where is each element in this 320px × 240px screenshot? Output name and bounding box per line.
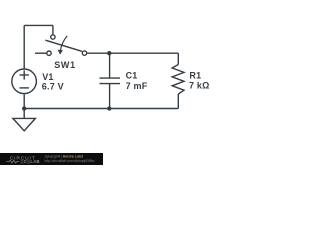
- switch pole terminal circle: [51, 35, 55, 39]
- svg-text:http://circuitlab.com/c5cbqnj8: http://circuitlab.com/c5cbqnj83l5kz: [45, 159, 96, 163]
- svg-text:7 kΩ: 7 kΩ: [189, 80, 210, 90]
- wire resistor bottom lead: [177, 94, 179, 109]
- junction dot at capacitor top: [107, 51, 111, 55]
- switch right throw circle: [82, 51, 86, 55]
- ground: [13, 118, 36, 130]
- resistor zigzag: [172, 65, 184, 95]
- switch left throw circle: [47, 51, 51, 55]
- svg-text:R1: R1: [189, 71, 201, 81]
- svg-text:V1: V1: [42, 72, 53, 82]
- watermark logo zigzag: [7, 160, 20, 163]
- voltage source V1: [12, 69, 37, 94]
- svg-text:C1: C1: [126, 71, 138, 81]
- wire battery top vertical: [23, 25, 25, 68]
- wire capacitor top lead: [109, 53, 111, 77]
- switch actuation arrow: [60, 36, 67, 51]
- watermark bar: [0, 153, 103, 165]
- wire resistor top lead: [177, 53, 179, 64]
- svg-text:ziyuangmli | Aurora_Lab3: ziyuangmli | Aurora_Lab3: [45, 154, 84, 158]
- wire top rail (switch to resistor): [87, 52, 178, 54]
- junction dot at battery bottom: [22, 106, 26, 110]
- svg-text:6.7 V: 6.7 V: [42, 82, 64, 92]
- switch SW1: [35, 35, 87, 56]
- wire capacitor bottom lead: [109, 84, 111, 109]
- switch left throw stub: [35, 52, 46, 54]
- wire switch pole drop: [52, 25, 54, 34]
- svg-text:SW1: SW1: [54, 60, 76, 70]
- switch lever: [45, 40, 82, 51]
- capacitor top plate: [100, 77, 121, 79]
- svg-text:▒C▒LAB: ▒C▒LAB: [21, 159, 40, 164]
- wire ground lead: [23, 109, 25, 119]
- wire battery bottom vertical: [23, 94, 25, 108]
- capacitor C1: [100, 78, 121, 84]
- wire bottom rail: [24, 108, 178, 110]
- svg-text:7 mF: 7 mF: [126, 81, 148, 91]
- switch arrow head: [58, 50, 63, 55]
- junction dot at capacitor bottom: [107, 106, 111, 110]
- capacitor bottom plate: [100, 83, 121, 85]
- wire top horizontal (battery top to switch pole): [24, 24, 53, 26]
